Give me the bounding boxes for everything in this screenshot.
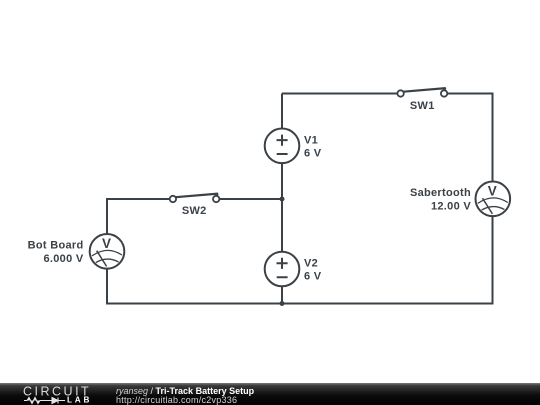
svg-text:V: V xyxy=(488,183,497,198)
footer bar xyxy=(0,383,540,405)
svg-text:Bot Board: Bot Board xyxy=(28,240,84,252)
svg-text:LAB: LAB xyxy=(67,396,92,405)
node junction between V1 and V2 xyxy=(280,197,285,202)
wire Sabertooth meter to bottom rail xyxy=(492,216,494,304)
wire right rail down to Sabertooth meter xyxy=(492,93,494,182)
svg-text:http://circuitlab.com/c2vp336: http://circuitlab.com/c2vp336 xyxy=(116,395,237,405)
svg-text:SW2: SW2 xyxy=(182,205,207,217)
wire SW2 to center node xyxy=(220,198,283,200)
switch SW1 xyxy=(397,88,447,112)
wire top from SW1 to right rail xyxy=(448,93,493,95)
wire V1 to center node to V2 xyxy=(281,163,283,252)
svg-text:12.00 V: 12.00 V xyxy=(431,201,471,213)
svg-text:V1: V1 xyxy=(304,135,318,147)
voltmeter Bot Board xyxy=(28,234,125,269)
wire Bot Board meter up to middle rail xyxy=(106,198,108,234)
wire bottom rail xyxy=(106,303,494,305)
svg-text:6 V: 6 V xyxy=(304,271,322,283)
node junction V2 to bottom rail xyxy=(280,301,285,306)
voltmeter Sabertooth xyxy=(410,182,510,217)
svg-text:V: V xyxy=(102,236,111,251)
svg-text:6.000 V: 6.000 V xyxy=(43,253,83,265)
voltage source V1 xyxy=(265,129,322,164)
voltage source V2 xyxy=(265,252,322,287)
svg-text:SW1: SW1 xyxy=(410,100,435,112)
svg-text:Sabertooth: Sabertooth xyxy=(410,187,471,199)
wire V2 to bottom rail xyxy=(281,286,283,303)
wire left rail bottom to Bot Board meter xyxy=(106,269,108,305)
wire top node down to V1 xyxy=(281,94,283,129)
wire top from V1 branch to SW1 xyxy=(282,93,397,95)
svg-text:V2: V2 xyxy=(304,258,318,270)
svg-text:6 V: 6 V xyxy=(304,148,322,160)
CircuitLab logo xyxy=(23,385,92,405)
footer title text xyxy=(116,386,255,405)
switch SW2 xyxy=(170,194,220,218)
wire middle rail to SW2 xyxy=(106,198,170,200)
